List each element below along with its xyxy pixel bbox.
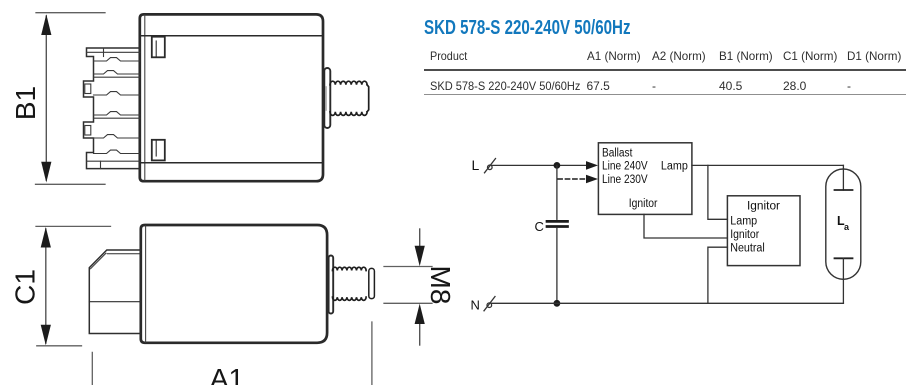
wire lamp bottom stem (842, 258, 844, 303)
top view connector (89, 250, 141, 334)
svg-text:Ballast: Ballast (602, 147, 633, 159)
lamp electrode bottom (835, 257, 853, 259)
label L (472, 157, 480, 173)
side view body (140, 14, 323, 181)
lamp La envelope (826, 169, 861, 279)
ignitor box labels (730, 201, 780, 255)
dimension B1 arrow line (41, 14, 51, 182)
wire lamp top stem (842, 165, 844, 190)
dimension A1 extension lines (92, 322, 372, 385)
wire junction down to capacitor (556, 165, 558, 219)
top view body (141, 225, 327, 343)
side view threaded stud M8 (330, 81, 369, 115)
capacitor C plates (547, 221, 568, 226)
wire capacitor to N line (556, 228, 558, 303)
ballast box U1 (598, 143, 692, 215)
side view latch top (152, 37, 165, 58)
svg-text:A1: A1 (210, 363, 244, 385)
svg-text:Ignitor: Ignitor (629, 198, 658, 210)
dimension C1 extension lines (36, 226, 111, 345)
table header rule (424, 69, 906, 71)
lamp electrode top (835, 189, 853, 191)
svg-text:N: N (471, 298, 480, 313)
svg-text:Lamp: Lamp (661, 161, 688, 173)
side view connector outline (84, 48, 140, 169)
dimension label M8 (425, 266, 456, 305)
svg-text:a: a (844, 222, 850, 232)
wire branch to ignitor Lamp pin (708, 165, 728, 219)
top view stud collar (329, 256, 334, 314)
wire ignitor Neutral to N (708, 247, 728, 303)
svg-text:Lamp: Lamp (730, 216, 757, 228)
junction dot on N wire (554, 300, 561, 307)
table data row (430, 79, 593, 93)
dimension label C1 (10, 269, 41, 305)
dimension C1 arrow line (41, 227, 51, 345)
dimension label B1 (10, 86, 41, 120)
svg-text:C: C (535, 219, 544, 234)
wire ballast Lamp to lamp (692, 164, 844, 166)
label N (471, 298, 480, 313)
svg-text:M8: M8 (425, 266, 456, 305)
ballast box labels (602, 147, 688, 210)
dashed wire to Line 230V (558, 178, 586, 180)
svg-text:Line 230V: Line 230V (602, 174, 648, 186)
table bottom rule (424, 94, 906, 96)
dimension label A1 (210, 363, 244, 385)
side view connector details (85, 48, 140, 168)
heading SKD 578-S 220-240V 50/60Hz (424, 17, 698, 40)
junction dot on L wire (554, 162, 561, 169)
side view stud collar (324, 68, 330, 128)
arrowhead into Line 230V (586, 175, 598, 184)
top view threaded stud M8 (333, 267, 375, 300)
dimension B1 extension lines (36, 13, 106, 185)
svg-text:Neutral: Neutral (730, 243, 765, 255)
ignitor box U2 (727, 196, 800, 266)
dimension M8 extension lines (384, 267, 432, 304)
circuit: terminal N (484, 297, 495, 311)
circuit: terminal L (485, 159, 496, 173)
svg-text:B1: B1 (10, 86, 41, 120)
svg-text:Line 240V: Line 240V (602, 161, 648, 173)
wire L to ballast (492, 164, 587, 166)
side view latch bottom (152, 140, 165, 161)
svg-text:L: L (472, 157, 480, 173)
svg-text:Ignitor: Ignitor (730, 229, 759, 241)
wire N line (492, 302, 844, 304)
table header row (430, 49, 471, 63)
wire ballast Ignitor to ignitor box (644, 214, 727, 238)
label C (535, 219, 544, 234)
svg-text:Ignitor: Ignitor (747, 201, 780, 213)
label La (837, 214, 850, 232)
svg-text:C1: C1 (10, 269, 41, 305)
arrowhead into Line 240V (586, 161, 598, 170)
dimension M8 arrow line (415, 229, 425, 345)
